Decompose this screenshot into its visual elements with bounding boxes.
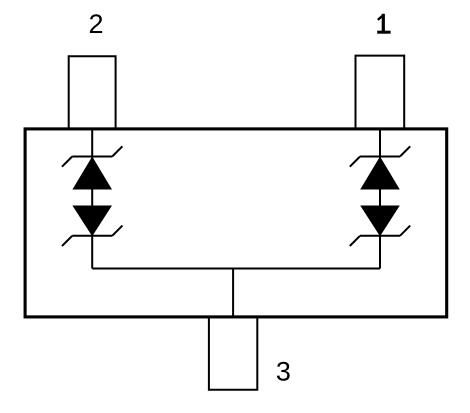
svg-text:2: 2: [88, 9, 103, 39]
svg-text:3: 3: [276, 357, 291, 387]
